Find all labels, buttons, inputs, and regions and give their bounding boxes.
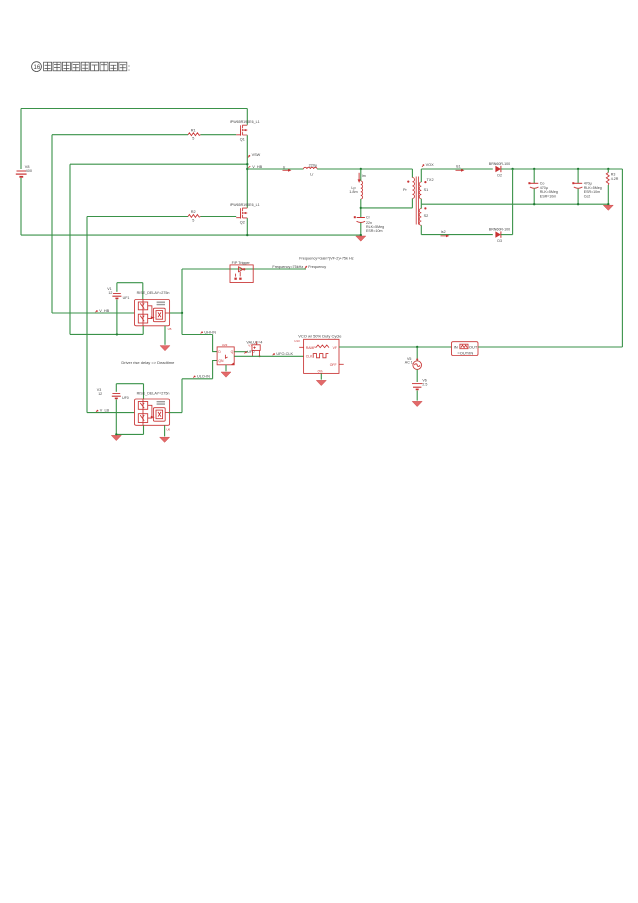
transformer secondary S2: [419, 204, 428, 234]
wire ULO-IN up to flipflop: [213, 361, 218, 379]
block gate driver U5: [135, 291, 172, 331]
wire frequency probe horizontal: [182, 268, 306, 270]
node VOX label: [422, 163, 434, 167]
svg-text:VSW: VSW: [252, 153, 261, 157]
block VCO U13: [294, 333, 344, 373]
resistor R1: [188, 128, 201, 140]
svg-text:Frequency=Gain*(VF-2)+75k Hz: Frequency=Gain*(VF-2)+75k Hz: [299, 257, 354, 261]
wire Q2 source down: [246, 218, 248, 235]
ground VCO: [316, 380, 326, 385]
svg-text:U6: U6: [166, 428, 170, 432]
svg-text:VOX: VOX: [426, 163, 434, 167]
wire bottom rail: [21, 234, 361, 236]
capacitor Co: [528, 182, 557, 199]
inductor Lp: [349, 181, 362, 199]
wire driver2 right pin: [169, 412, 183, 414]
svg-text:BRN60R-100: BRN60R-100: [489, 228, 510, 232]
svg-text:UHI-IN: UHI-IN: [204, 330, 216, 334]
svg-text:V_HB: V_HB: [99, 309, 109, 313]
wire V1 top to block: [117, 282, 143, 284]
behavioral source V7 VALUE=4: [246, 340, 262, 357]
wire V_HB reference horizontal: [70, 333, 143, 335]
junction D3 riser: [511, 168, 513, 170]
wire vertical from Q2 gate wire to driver2 output: [86, 217, 88, 413]
wire gate Q2 right: [201, 216, 237, 218]
wire Q1 source to Q2 drain: [246, 135, 248, 208]
node V_LB label at driver2: [96, 408, 110, 412]
voltage source V3: [97, 384, 129, 435]
transistor Q2: [230, 203, 260, 224]
junction V_HB at switch leg: [246, 163, 248, 165]
svg-text:S2: S2: [424, 214, 429, 218]
svg-text:220µ: 220µ: [309, 164, 318, 168]
wire block1 bottom right pin: [164, 326, 166, 345]
wire V_HB vertical: [69, 164, 71, 334]
junction V1 minus: [116, 333, 118, 335]
svg-text:CLK: CLK: [306, 355, 313, 359]
junction Co2 top: [577, 168, 579, 170]
wire Cr bottom: [360, 223, 362, 235]
svg-text:OUT: OUT: [469, 345, 478, 350]
junction Cr ground: [360, 234, 362, 236]
ground primary: [356, 236, 366, 241]
svg-text:S1: S1: [424, 188, 429, 192]
current arrow Ir: [283, 165, 292, 171]
svg-text:U13: U13: [294, 339, 300, 343]
capacitor Cr: [354, 216, 384, 233]
wire left vertical upper: [20, 109, 22, 170]
junction driver1 input node: [181, 312, 183, 314]
wire clock FF to VCO: [234, 355, 303, 357]
svg-text:R1: R1: [191, 128, 196, 132]
svg-text::: :: [128, 63, 131, 73]
diode D3: [489, 228, 510, 243]
ground driver1: [160, 346, 170, 351]
header text 完整電路圖如下所示:: [44, 62, 127, 71]
wire V3 minus horizontal: [116, 433, 143, 435]
svg-text:QN: QN: [218, 359, 224, 363]
wire ULO-IN vertical: [181, 379, 183, 413]
svg-text:Im: Im: [362, 174, 366, 178]
wire block2 bottom left pin: [143, 425, 145, 434]
voltage source V5 AC: [405, 357, 422, 370]
inductor Lr: [304, 164, 318, 177]
svg-text:ESR=10m: ESR=10m: [540, 195, 556, 199]
current arrow Is1: [456, 165, 465, 172]
wire secondary top to D2: [421, 168, 493, 170]
wire Co2 branch top: [577, 169, 579, 183]
wire probe to sense corner: [478, 346, 622, 348]
svg-text:Co2: Co2: [584, 195, 591, 199]
junction Co top: [533, 168, 535, 170]
ground secondary: [603, 205, 613, 210]
svg-text:1.8m: 1.8m: [349, 190, 357, 194]
svg-text:0%: 0%: [318, 370, 323, 374]
svg-text:Is1: Is1: [456, 165, 461, 169]
wire block2 top pin: [143, 384, 145, 399]
wire output sense corner: [621, 169, 623, 347]
transformer primary winding: [403, 169, 415, 208]
current arrow Is2: [441, 230, 450, 237]
svg-text:Q: Q: [231, 350, 234, 354]
svg-text:VCO w/ 50% Duty Cycle: VCO w/ 50% Duty Cycle: [298, 333, 342, 338]
svg-text:Frequency: Frequency: [308, 265, 326, 269]
junction AC injection: [416, 346, 418, 348]
svg-text:400: 400: [26, 169, 32, 173]
junction Lp branch: [360, 168, 362, 170]
wire gate Q1 left: [52, 134, 188, 136]
block loop gain probe OUT/IN: [452, 342, 479, 356]
svg-text:R3: R3: [611, 173, 616, 177]
svg-text:12: 12: [98, 392, 102, 396]
wire gate Q2 left: [87, 216, 188, 218]
junction resonant wire at switch leg: [246, 168, 248, 170]
svg-text:=OUT/IN: =OUT/IN: [457, 350, 473, 355]
ground driver2: [160, 437, 170, 442]
diode D2: [489, 162, 510, 177]
svg-text:U23: U23: [222, 343, 228, 347]
node Frequency label: [272, 265, 326, 269]
svg-text:RISE_DELAY=275n: RISE_DELAY=275n: [137, 391, 170, 395]
flip-flop U23: [217, 343, 234, 365]
svg-text:5: 5: [192, 218, 194, 222]
svg-text:Is2: Is2: [441, 230, 446, 234]
svg-text:BRN60R-100: BRN60R-100: [489, 162, 510, 166]
node VSW label: [248, 153, 261, 158]
wire block1 bottom left pin: [142, 326, 144, 335]
svg-text:RISE_DELAY=275n: RISE_DELAY=275n: [137, 291, 170, 295]
wire flipflop Q stub: [234, 351, 248, 353]
node UHI-IN label: [201, 330, 217, 334]
resistor R3: [606, 173, 618, 186]
wire V_HB horizontal: [70, 163, 247, 165]
svg-text:D3: D3: [497, 239, 502, 243]
svg-text:5: 5: [192, 137, 194, 141]
wire drain Q1: [246, 109, 248, 125]
svg-text:IN: IN: [454, 345, 458, 350]
svg-text:R2: R2: [191, 210, 196, 214]
svg-text:Q2: Q2: [240, 220, 245, 224]
block gate driver U6: [135, 391, 171, 431]
junction primary return: [360, 207, 362, 209]
svg-text:TX2: TX2: [427, 178, 434, 182]
wire driver1 output: [52, 312, 135, 314]
svg-text:Driver rise delay => Deadtime: Driver rise delay => Deadtime: [121, 360, 175, 365]
svg-text:RAMP: RAMP: [306, 346, 317, 350]
voltage source V8: [16, 165, 32, 177]
wire R3 bottom: [607, 185, 609, 204]
svg-text:2.5: 2.5: [422, 382, 427, 386]
wire gate Q1 right: [201, 134, 237, 136]
wire VF to injection node: [339, 346, 452, 348]
junction Co2 bottom: [577, 203, 579, 205]
ground flipflop: [221, 372, 231, 377]
svg-text:V_LB: V_LB: [100, 408, 110, 412]
wire top rail: [21, 108, 247, 110]
wire vertical from gate wire to driver1 output: [51, 135, 53, 313]
wire left vertical lower: [20, 178, 22, 235]
wire trigger vertical: [181, 269, 183, 313]
capacitor Co2: [572, 182, 601, 199]
svg-text:ULO-IN: ULO-IN: [197, 375, 210, 379]
wire center tap rail: [421, 203, 608, 205]
resistor R2: [188, 210, 201, 222]
svg-text:Q1: Q1: [240, 138, 245, 142]
svg-text:UF1: UF1: [123, 296, 130, 300]
block F/P Trigger: [230, 261, 253, 282]
svg-text:Co: Co: [540, 182, 545, 186]
transformer secondary S1: [419, 169, 428, 204]
svg-text:IPW65R190E6_L1: IPW65R190E6_L1: [230, 203, 260, 207]
svg-text:F/P Trigger: F/P Trigger: [232, 261, 251, 265]
junction R3 top: [607, 168, 609, 170]
junction Q2 source: [246, 234, 248, 236]
svg-text:UF0: UF0: [122, 396, 129, 400]
wire V3 top to block: [116, 383, 143, 385]
svg-text:16: 16: [34, 65, 41, 71]
svg-text:U5: U5: [168, 327, 172, 331]
wire VCO bottom pin: [320, 373, 322, 379]
wire Co bottom: [533, 189, 535, 205]
junction Co bottom: [533, 203, 535, 205]
wire UHI-IN vertical: [181, 313, 183, 335]
wire D3 to riser: [501, 234, 513, 236]
node UFO label: [244, 350, 255, 354]
wire block top pin: [142, 283, 144, 300]
transformer core: [416, 177, 418, 225]
wire V5 to V6: [416, 369, 418, 382]
wire Lr to transformer: [317, 168, 412, 170]
wire driver2 output: [87, 412, 135, 414]
svg-text:12: 12: [108, 291, 112, 295]
wire D2 to output rail: [501, 168, 623, 170]
wire UHI-IN horizontal: [182, 334, 213, 336]
wire Co branch top: [533, 169, 535, 183]
wire flipflop ground stub: [225, 365, 227, 372]
svg-text:AC 1: AC 1: [405, 361, 413, 365]
svg-text:V_HB: V_HB: [252, 165, 262, 169]
svg-text:470µ: 470µ: [584, 182, 592, 186]
wire Lp bottom: [360, 199, 362, 217]
ground V6: [412, 401, 422, 406]
svg-text:IPW65R190E6_L1: IPW65R190E6_L1: [230, 120, 260, 124]
wire V6 bottom: [416, 390, 418, 400]
wire Lp branch top: [360, 169, 362, 181]
svg-text:D2: D2: [497, 173, 502, 177]
wire ULO-IN horizontal: [182, 378, 213, 380]
wire UHI-IN down to flipflop: [213, 335, 218, 352]
wire riser D3 up: [512, 169, 514, 235]
node UFO-CLK label: [273, 352, 294, 356]
node V_HB label: [248, 165, 262, 169]
wire Co2 bottom: [577, 189, 579, 205]
svg-text:4.2R: 4.2R: [611, 177, 619, 181]
wire V5 branch top: [416, 347, 418, 361]
wire R3 top stub: [607, 169, 609, 173]
svg-text:Frequency=75kHz: Frequency=75kHz: [272, 265, 303, 269]
svg-text:OFF: OFF: [330, 363, 337, 367]
node V_HB label at driver1: [95, 309, 109, 313]
svg-text:VF: VF: [333, 346, 337, 350]
wire S2 bottom to D3: [421, 234, 493, 236]
junction V3 ground: [115, 433, 117, 435]
transistor Q1: [230, 120, 260, 141]
voltage source V6: [412, 379, 427, 390]
voltage source V1: [107, 283, 129, 335]
wire switch node to Lr: [247, 168, 303, 170]
wire block2 bottom right pin: [164, 425, 166, 436]
ground V3: [111, 435, 121, 440]
svg-text:UFO-CLK: UFO-CLK: [276, 352, 293, 356]
current arrow Im: [358, 173, 366, 183]
junction R3 bottom: [607, 203, 609, 205]
wire primary bottom horizontal: [361, 207, 413, 209]
header circled 16: [32, 62, 42, 72]
svg-text:ESR=10m: ESR=10m: [366, 229, 382, 233]
wire driver1 right pin: [170, 312, 182, 314]
node ULO-IN label: [193, 375, 210, 379]
